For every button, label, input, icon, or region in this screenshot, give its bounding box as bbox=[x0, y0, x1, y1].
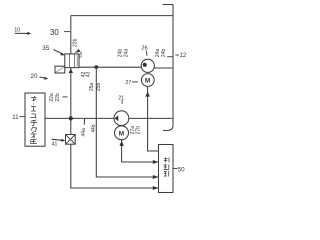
label 42 rotated bbox=[81, 72, 87, 78]
glyph ア bbox=[31, 134, 37, 139]
wire: right vertical line 12 with bottom hook bbox=[163, 5, 173, 131]
node junction (70.8,118.4) bbox=[69, 116, 73, 120]
svg-text:26: 26 bbox=[142, 46, 148, 52]
wire: valve to pump P line bbox=[79, 66, 141, 68]
label 12 bbox=[175, 53, 187, 59]
pump P1 inner dot bbox=[143, 63, 147, 67]
svg-text:27: 27 bbox=[126, 80, 132, 86]
svg-text:24b: 24b bbox=[161, 49, 167, 58]
node junction (96.3,67.1) bbox=[94, 65, 98, 69]
actuator text bbox=[31, 96, 38, 144]
label 10 bbox=[14, 27, 20, 33]
label 11 with dash bbox=[12, 115, 24, 121]
actuator box 11 bbox=[25, 93, 45, 146]
svg-text:M: M bbox=[119, 131, 124, 138]
svg-text:27b: 27b bbox=[136, 126, 142, 135]
label 35 with arrow bbox=[42, 45, 65, 55]
label 26 with tick bbox=[142, 46, 148, 56]
svg-text:11: 11 bbox=[12, 115, 19, 121]
label 21 with tick bbox=[118, 95, 124, 103]
pump P1 circle bbox=[141, 59, 154, 72]
svg-text:24a: 24a bbox=[123, 49, 129, 58]
svg-text:23b: 23b bbox=[72, 38, 78, 47]
label 50 with dash bbox=[173, 167, 185, 173]
wire: actuator to P2 line bbox=[45, 117, 114, 119]
wire: M2 down to control box bbox=[122, 140, 159, 162]
arrow for label 10 bbox=[15, 32, 32, 35]
svg-text:M: M bbox=[145, 78, 150, 85]
wire: supply line bottom to control box bbox=[71, 144, 158, 188]
wire: top horizontal line bbox=[71, 15, 173, 17]
glyph タ bbox=[31, 96, 37, 101]
label 24a rotated left of P1 (2nd col) bbox=[123, 49, 129, 58]
wire: P1 right to line 12 bbox=[154, 67, 173, 69]
label 25b rotated bbox=[96, 83, 102, 92]
wire: supply line from valve down to X-valve bbox=[70, 68, 72, 135]
svg-text:43: 43 bbox=[86, 72, 92, 78]
top hook segment bbox=[163, 4, 174, 6]
wire: supply line upper bbox=[70, 16, 72, 54]
motor M1 circle bbox=[141, 74, 154, 87]
control box 50 bbox=[159, 145, 174, 193]
label 43 rotated bbox=[86, 72, 92, 78]
control box text bbox=[164, 158, 169, 177]
label 44b rotated near X-valve bbox=[91, 124, 97, 133]
relief stub bbox=[83, 118, 85, 124]
wire: M1 down to control box bbox=[148, 86, 159, 151]
label 23b rotated bbox=[72, 38, 80, 52]
label 23a rotated tiny bbox=[78, 51, 83, 58]
svg-text:12: 12 bbox=[180, 53, 187, 59]
svg-text:50: 50 bbox=[178, 167, 185, 173]
arrowhead into control box y=162 bbox=[153, 160, 159, 164]
svg-text:30: 30 bbox=[50, 28, 59, 37]
glyph 部 bbox=[164, 171, 169, 177]
pump P2 inner triangle bbox=[114, 116, 118, 122]
svg-text:35: 35 bbox=[42, 45, 49, 52]
svg-text:44a: 44a bbox=[81, 128, 87, 137]
label 24b rotated right of P1 (2nd col) bbox=[161, 49, 173, 58]
label 27 with dash bbox=[126, 80, 139, 86]
wire: P2 right line to 12 bbox=[129, 117, 173, 119]
label 27a rotated right of M2 bbox=[130, 126, 136, 135]
arrowhead up into M2 bbox=[119, 141, 124, 146]
label 44a rotated near X-valve bbox=[81, 128, 87, 137]
arrowhead up into valve 30 bbox=[69, 68, 73, 73]
glyph チ bbox=[31, 120, 38, 126]
motor M2 circle bbox=[115, 126, 129, 140]
glyph ク bbox=[31, 128, 37, 133]
wire: middle vertical line x=96.3 bbox=[96, 67, 158, 177]
svg-text:22b: 22b bbox=[55, 93, 61, 102]
pump P2 circle bbox=[114, 111, 129, 126]
valve U30 body bbox=[65, 54, 79, 68]
svg-text:10: 10 bbox=[14, 27, 20, 33]
svg-text:23a: 23a bbox=[78, 51, 83, 58]
svg-text:25b: 25b bbox=[96, 83, 102, 92]
label 25a rotated bbox=[89, 83, 95, 92]
svg-text:25a: 25a bbox=[89, 83, 95, 92]
svg-text:21: 21 bbox=[118, 95, 124, 101]
label 30 bbox=[50, 28, 70, 37]
X-valve 41 body bbox=[66, 135, 76, 145]
glyph ュ bbox=[31, 114, 37, 118]
arrowhead into control box y=177 bbox=[153, 175, 159, 179]
label 20 with arrow bbox=[31, 73, 49, 80]
svg-text:41: 41 bbox=[52, 142, 58, 148]
glyph ー bbox=[33, 104, 35, 105]
label 24a rotated right of P1 bbox=[155, 49, 161, 58]
solenoid box of valve 30 bbox=[55, 66, 65, 73]
glyph エ bbox=[31, 107, 36, 112]
label 22b rotated bbox=[55, 93, 67, 102]
glyph 御 bbox=[164, 164, 169, 170]
label 24b rotated left of P1 bbox=[118, 49, 124, 58]
label 22a rotated bbox=[49, 93, 55, 102]
svg-text:20: 20 bbox=[31, 73, 38, 80]
arrowhead up into M1 bbox=[145, 92, 150, 97]
arrowhead into control box y=188 bbox=[153, 186, 159, 190]
label 27b rotated right of M2 bbox=[136, 126, 142, 135]
label 41 with arrow bbox=[52, 139, 66, 148]
glyph 制 bbox=[164, 158, 169, 163]
glyph 圧 bbox=[31, 140, 38, 144]
svg-text:22a: 22a bbox=[49, 93, 55, 102]
svg-text:44b: 44b bbox=[91, 124, 97, 133]
